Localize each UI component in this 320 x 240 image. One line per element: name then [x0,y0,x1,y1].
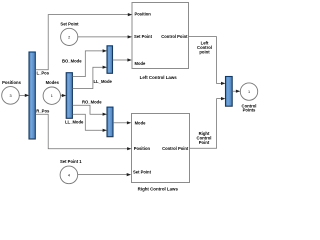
svg-text:L_Pos: L_Pos [37,70,50,75]
outport Control Points (1) [240,83,257,113]
wire LL_Mode demux2 to mux4 [65,114,107,132]
svg-text:LL_Mode: LL_Mode [94,79,113,84]
inport Set Point 1 (4) [60,159,82,184]
svg-text:Set Point: Set Point [133,170,152,175]
svg-text:Mode: Mode [135,61,147,66]
svg-text:4: 4 [68,173,70,177]
svg-text:Right Control Laws: Right Control Laws [138,187,179,192]
wire R_Pos demux1 to Position (right box) [35,108,131,150]
svg-text:point: point [199,50,210,55]
wire Modes to demux2 [61,94,67,97]
svg-text:Set Point 1: Set Point 1 [60,159,82,164]
inport Set Point (2) [60,21,79,45]
svg-text:LL_Mode: LL_Mode [65,120,84,125]
svg-text:BO_Mode: BO_Mode [62,58,82,63]
svg-text:1: 1 [51,94,53,98]
wire RO_Mode demux2 to mux4 [72,100,107,116]
demux positions (bar 1) [29,52,35,139]
wire L_Pos demux1 to Position (left box) [35,13,132,75]
svg-text:Control Point: Control Point [162,146,189,151]
wire Set Point to left box [78,35,132,38]
svg-text:Mode: Mode [135,120,147,125]
svg-text:Left Control Laws: Left Control Laws [140,75,178,80]
svg-text:R_Pos: R_Pos [36,108,50,113]
svg-text:Positions: Positions [2,80,22,85]
svg-text:1: 1 [248,90,250,94]
inport Positions (3) [2,80,22,104]
mux left mode (bar 3) [107,46,113,74]
inport Modes (1) [43,80,60,105]
svg-text:Position: Position [135,12,152,17]
subsystem Left Control Laws [132,3,189,81]
mux right mode (bar 4) [107,107,113,137]
mux control points (bar 5) [226,77,233,107]
demux modes (bar 2) [66,73,72,119]
wire Left Control Point to mux5 [189,37,226,85]
wire mux3 to Mode (left box) [113,58,132,61]
wire Positions to demux1 [19,94,29,97]
subsystem Right Control Laws [132,114,190,192]
svg-text:Points: Points [243,108,256,113]
svg-text:Set Point: Set Point [134,34,153,39]
svg-text:Modes: Modes [46,80,60,85]
svg-text:Set Point: Set Point [60,21,79,26]
wire mux4 to Mode (right box) [113,121,131,124]
wire Right Control Point to mux5 [190,97,226,148]
wire BO_Mode demux2 to mux3 [62,49,107,76]
svg-text:Position: Position [134,146,151,151]
svg-text:2: 2 [68,35,70,39]
wire Set Point 1 to right box [78,173,131,176]
wire mux5 to outport [232,90,240,93]
svg-text:Control Point: Control Point [161,34,188,39]
svg-text:3: 3 [9,94,11,98]
wire LL_Mode demux2 to mux3 [72,66,112,89]
svg-text:RO_Mode: RO_Mode [82,100,102,105]
svg-text:Point: Point [199,140,210,145]
